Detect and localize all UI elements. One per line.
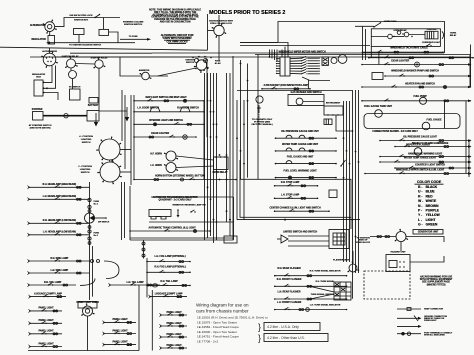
starter relay U5: [93, 57, 105, 68]
trunk satellite 3: [243, 100, 245, 220]
mid vertical bus c: [129, 186, 131, 240]
wire relay c to control: [409, 34, 425, 36]
panel row 4: [29, 342, 63, 348]
main feed rail right top: [152, 52, 444, 54]
box left drop: [370, 46, 372, 57]
svg-text:CIGAR LIGHTER: CIGAR LIGHTER: [151, 132, 169, 135]
right bus vertical inner 3: [349, 101, 351, 262]
side lamp inline connectors: [91, 260, 100, 263]
svg-text:OVERDRIVE LIGHT: OVERDRIVE LIGHT: [422, 42, 441, 44]
starter motor box: [33, 112, 44, 121]
svg-text:4 - POSITION: 4 - POSITION: [79, 135, 93, 138]
svg-text:1E.15979 - Open Two Seater: 1E.15979 - Open Two Seater: [197, 320, 237, 324]
svg-text:ALTERNATOR: ALTERNATOR: [42, 50, 57, 53]
svg-text:No.1: No.1: [94, 204, 99, 206]
regulator wire 2: [44, 66, 56, 89]
svg-text:IGNITION KEY: IGNITION KEY: [74, 20, 89, 22]
panel mid row 2: [103, 329, 137, 335]
svg-text:YELLOW: YELLOW: [426, 213, 441, 217]
wire alternator rail right: [56, 56, 205, 58]
svg-text:L.H. TAIL LAMP: L.H. TAIL LAMP: [127, 281, 144, 284]
wiper end dots: [308, 58, 320, 75]
inner bus dots: [343, 137, 351, 178]
horn push blade: [373, 22, 381, 28]
stop box drop: [350, 217, 352, 229]
svg-text:1E.77708 - 2+2: 1E.77708 - 2+2: [197, 340, 219, 344]
panel row 2: [29, 319, 63, 325]
cigar lighter left symbol: [183, 135, 187, 139]
row RH stop lamp: [274, 181, 319, 187]
svg-text:R.H. FRONT FLASHER: R.H. FRONT FLASHER: [277, 278, 302, 281]
label box 4.2 litre USA only: [264, 323, 320, 331]
lamp row luggage compt lamp right: [149, 292, 188, 298]
trunk wire 7: [229, 73, 231, 236]
svg-text:BOX: BOX: [37, 76, 42, 78]
svg-text:SWITCH: SWITCH: [81, 172, 90, 174]
svg-text:L.H. STOP LAMP: L.H. STOP LAMP: [281, 194, 300, 197]
wire battery to chassis ground: [99, 110, 127, 112]
row auto trans control light: [129, 226, 211, 232]
fuse bus vertical: [89, 182, 91, 300]
svg-text:SWITCH: SWITCH: [82, 142, 91, 144]
svg-text:FLASHER UNIT: FLASHER UNIT: [333, 259, 350, 262]
dashed option box: [364, 271, 410, 299]
row wiper illum: [364, 170, 471, 175]
alt switch blade: [94, 14, 100, 18]
svg-text:L.H. TURN SIGNAL INDICATOR: L.H. TURN SIGNAL INDICATOR: [310, 303, 341, 306]
wire alternator top: [49, 48, 51, 53]
left fuse bus second: [92, 246, 94, 297]
alternator inner dots: [46, 56, 53, 62]
battery cutoff box: [89, 98, 98, 104]
feed pair lower: [130, 239, 234, 241]
svg-text:BRAKE FLUID AND HANDBRAKE: BRAKE FLUID AND HANDBRAKE: [412, 142, 449, 145]
row horn button: [133, 176, 237, 181]
svg-text:R.H. SIDE LAMP: R.H. SIDE LAMP: [51, 257, 69, 260]
lamp row RH headlamp low beam: [28, 219, 90, 225]
svg-text:OIL PRESSURE GAUGE AND UNIT: OIL PRESSURE GAUGE AND UNIT: [281, 130, 319, 133]
svg-text:2 - POSITION: 2 - POSITION: [78, 166, 92, 168]
svg-text:PURPLE: PURPLE: [426, 209, 440, 213]
svg-text:LIGHT: LIGHT: [426, 218, 436, 222]
wiper fan wires: [290, 58, 301, 74]
ignition aux contact a: [195, 59, 199, 63]
row cigar lighter left: [133, 132, 197, 138]
row RH fog lamp: [146, 266, 191, 274]
arrowhead to fuse: [147, 38, 151, 41]
panel bus 2: [151, 290, 153, 351]
row RH rear flasher: [274, 267, 347, 277]
left-center rows right bus: [203, 101, 205, 180]
main feed rail left: [30, 56, 208, 58]
rail tick: [284, 219, 286, 221]
svg-text:AUTOMATIC TRANSMISSION SELECTO: AUTOMATIC TRANSMISSION SELECTOR: [153, 196, 198, 199]
svg-text:L.H. FRONT FLASHER: L.H. FRONT FLASHER: [277, 301, 302, 304]
selector wire 1: [288, 235, 329, 237]
left bus extra 1: [121, 90, 123, 141]
svg-text:FACTORY MANUAL): FACTORY MANUAL): [252, 123, 273, 126]
lamp row RH tail lamp: [28, 281, 77, 287]
left vertical a: [362, 26, 364, 60]
wire generator right: [406, 237, 444, 243]
svg-text:PANEL LIGHT: PANEL LIGHT: [39, 342, 55, 345]
svg-text:R.H. HEADLAMP (HIGH BEAM): R.H. HEADLAMP (HIGH BEAM): [43, 183, 77, 186]
hazard warning note: [420, 276, 453, 287]
stop box left riser: [239, 160, 241, 179]
regulator terminal dots: [43, 82, 45, 94]
svg-text:INSTRUMENT: INSTRUMENT: [326, 103, 341, 105]
legend ground via bolt: [397, 325, 422, 328]
wiper bank outlet wire: [302, 77, 330, 81]
2-position lighting switch U8: [97, 160, 122, 185]
starter switch box: [70, 89, 81, 100]
stop lamp outer box: [240, 179, 351, 217]
horn relay outer box: [371, 29, 440, 47]
door key shaft: [257, 105, 261, 124]
svg-text:REVERSE LAMP SW: REVERSE LAMP SW: [185, 204, 207, 207]
washer wires: [303, 101, 324, 103]
inhibitor switch symbol: [177, 209, 180, 217]
svg-text:QUADRANT - 2+2 CARS ONLY: QUADRANT - 2+2 CARS ONLY: [159, 199, 193, 202]
flasher unit circle: [348, 261, 360, 272]
trunk wire 1: [204, 73, 206, 240]
svg-text:COLOR CODE: COLOR CODE: [417, 180, 442, 184]
legend snap connector: [397, 308, 444, 311]
svg-text:HORN PUSH: HORN PUSH: [384, 21, 397, 23]
wire to horn push blade: [355, 25, 374, 27]
svg-text:WITH OPTIONAL EQUIPMENT: WITH OPTIONAL EQUIPMENT: [420, 278, 453, 281]
svg-text:WATER TEMP. GAUGE AND UNIT: WATER TEMP. GAUGE AND UNIT: [282, 143, 319, 146]
row LH front flasher: [274, 301, 347, 311]
wire to fuse arrow: [120, 38, 147, 40]
svg-text:PANEL LIGHT: PANEL LIGHT: [167, 333, 183, 336]
svg-text:SEE SUPPLEMENT PAGE: SEE SUPPLEMENT PAGE: [422, 281, 450, 284]
regulator wire dot: [46, 87, 48, 89]
selector grid: [333, 233, 345, 245]
left vertical b: [365, 29, 367, 60]
trunk junction dots: [207, 100, 231, 223]
chassis number text block: [196, 303, 268, 344]
cigar lighter right symbol: [415, 62, 420, 67]
wiper motor armature: [331, 58, 337, 64]
svg-text:GAS WASHER AND SWITCH: GAS WASHER AND SWITCH: [291, 91, 322, 94]
svg-text:L.H. HEADLAMP (HIGH BEAM): L.H. HEADLAMP (HIGH BEAM): [43, 195, 76, 198]
label box 4.2 litre other than USA: [264, 334, 328, 342]
alt relay box: [99, 29, 109, 35]
far right vertical: [444, 101, 446, 129]
wiper feed bundle 2: [271, 50, 273, 59]
svg-text:N -: N -: [418, 204, 422, 208]
wire relay to lock rail: [103, 18, 105, 30]
svg-text:STARTER: STARTER: [32, 108, 43, 111]
wire ignition switch up: [218, 15, 220, 25]
row flasher tail: [146, 280, 191, 286]
svg-text:CONNECTIONS SHOWN - 3.8 CARS O: CONNECTIONS SHOWN - 3.8 CARS ONLY: [372, 130, 418, 133]
lamp row RH headlamp high beam: [28, 183, 90, 189]
mid box top rail: [151, 196, 234, 198]
right bus vertical inner 2: [346, 101, 348, 262]
alt rail left arrow: [46, 41, 50, 44]
wire to generator light: [370, 236, 396, 238]
svg-text:1E.34751 - Fixed Head Coupe: 1E.34751 - Fixed Head Coupe: [197, 335, 239, 339]
svg-text:LIGHTING: LIGHTING: [81, 139, 92, 141]
svg-text:SNAP CONNECTOR: SNAP CONNECTOR: [424, 308, 443, 311]
relay contact a: [388, 34, 393, 39]
quadrant housing box: [149, 210, 171, 217]
svg-text:}: }: [258, 322, 261, 332]
windshield washer pump box: [372, 73, 383, 80]
fuel pump motor: [420, 97, 427, 104]
wire ignition relay drop: [70, 68, 72, 71]
bus connector dots: [88, 210, 91, 245]
svg-text:INHIBITOR: INHIBITOR: [173, 205, 185, 207]
trunk satellite 1: [236, 100, 238, 220]
svg-text:R.H. HEADLAMP (LOW BEAM): R.H. HEADLAMP (LOW BEAM): [43, 219, 76, 222]
fuel gauge: [422, 122, 430, 130]
ivr resistor: [324, 119, 332, 125]
wire ammeter feed: [120, 57, 142, 76]
dip switch with wedge: [85, 213, 110, 224]
row heater fan: [361, 83, 471, 89]
battery cable thick: [43, 115, 87, 117]
svg-text:HORN: HORN: [450, 33, 456, 35]
svg-text:GENERATOR UNIT: GENERATOR UNIT: [418, 231, 439, 234]
svg-text:WINDSHIELD TACH DRIVE CABLE: WINDSHIELD TACH DRIVE CABLE: [390, 46, 428, 49]
chassis ground arrow: [125, 107, 129, 122]
svg-text:REGULATOR: REGULATOR: [32, 38, 47, 41]
svg-text:P -: P -: [418, 209, 422, 213]
loom arc right of side lamps: [104, 261, 119, 279]
svg-text:A1-A2: A1-A2: [215, 62, 222, 65]
panel mid row 3: [103, 340, 137, 346]
wiper feed 3: [240, 43, 288, 58]
svg-text:4.2 litre - U.S.A. Only: 4.2 litre - U.S.A. Only: [267, 325, 299, 329]
svg-text:BLUE: BLUE: [426, 190, 436, 194]
svg-text:WINDSHIELD WASHER PUMP AND SWI: WINDSHIELD WASHER PUMP AND SWITCH: [391, 70, 439, 73]
relay contact b: [397, 31, 401, 35]
svg-text:BROWN: BROWN: [426, 204, 439, 208]
ignition cluster top dots: [192, 56, 212, 59]
svg-text:FIXING BOLT: FIXING BOLT: [424, 320, 437, 322]
svg-text:R.H. TURN SIGNAL: R.H. TURN SIGNAL: [316, 280, 336, 283]
wire alternator to lock rail: [55, 18, 120, 27]
svg-text:PANEL LIGHT: PANEL LIGHT: [167, 322, 183, 325]
lamp row luggage compt lamp: [29, 292, 67, 298]
right edge vertical bus: [470, 45, 472, 88]
row door switches: [133, 107, 205, 113]
reverse lamp switch symbol: [190, 210, 195, 213]
wiper feed bundle 3: [274, 50, 276, 61]
row oil pressure gauge: [275, 130, 337, 139]
stop lamp switch box: [329, 190, 337, 198]
battery ground arrow: [94, 113, 98, 127]
wire starter relay to battery: [98, 68, 100, 110]
generator drop: [400, 242, 402, 252]
lamp row LH side lamp: [28, 269, 90, 275]
color code legend: [415, 180, 444, 227]
brake fluid box: [389, 261, 397, 268]
svg-text:LUGGAGE COMPT LAMP: LUGGAGE COMPT LAMP: [155, 292, 183, 295]
selector wire 2: [288, 240, 329, 242]
svg-text:1E.34582 - Fixed Head Coupe: 1E.34582 - Fixed Head Coupe: [197, 325, 239, 329]
turn signal relay box: [334, 282, 351, 300]
diag wire rows to relay: [310, 286, 334, 299]
svg-text:LUGGAGE COMPT LAMP: LUGGAGE COMPT LAMP: [34, 292, 62, 295]
fog rows bus vertical: [146, 258, 148, 297]
overdrive switch: [426, 44, 431, 47]
row fuel level warning: [275, 170, 337, 180]
generator warning light: [395, 229, 408, 242]
svg-text:WATER TEMP. GAUGE LIGHT: WATER TEMP. GAUGE LIGHT: [404, 157, 437, 160]
wire quadrant row: [149, 221, 234, 223]
svg-text:DIP SWITCH: DIP SWITCH: [98, 222, 110, 224]
svg-text:ALTERNATOR: ALTERNATOR: [30, 24, 46, 27]
svg-text:FUSE BLOCK: FUSE BLOCK: [356, 242, 371, 244]
low freq horn U10: [164, 163, 178, 173]
svg-text:WINDSHIELD WIPER MOTOR AND SWI: WINDSHIELD WIPER MOTOR AND SWITCH: [279, 51, 326, 54]
selector wire 3: [288, 245, 329, 247]
svg-text:STRG COLUMN LOCK: STRG COLUMN LOCK: [210, 23, 232, 25]
svg-text:(WHERE FITTED): (WHERE FITTED): [427, 284, 446, 286]
quadrant notches: [151, 217, 166, 220]
svg-text:HAZARD UNIT: HAZARD UNIT: [391, 251, 407, 254]
svg-text:2-PIN SOCKET (FOR INSPECTION L: 2-PIN SOCKET (FOR INSPECTION LAMP): [264, 84, 309, 87]
row LH stop lamp: [274, 194, 319, 200]
row ignition tach drive: [362, 46, 444, 53]
panel row 1: [29, 307, 63, 313]
instrument voltage regulator box: [324, 106, 343, 115]
left bus vertical: [130, 95, 132, 185]
wire ignition switch drop: [218, 36, 220, 60]
lamp row LH tail lamp: [109, 281, 161, 287]
wiper switch column: [301, 56, 308, 74]
door key switch: [256, 96, 263, 103]
fuel tank box: [364, 114, 460, 129]
row interior courtesy: [394, 165, 471, 169]
svg-text:RELAY: RELAY: [450, 34, 457, 37]
alternator U3 main: [41, 51, 58, 68]
svg-text:TO STARTER SOLENOID SWITCH: TO STARTER SOLENOID SWITCH: [69, 44, 102, 47]
svg-text:G -: G -: [418, 223, 423, 227]
high freq horn U9: [164, 151, 178, 161]
wiper feed bundle 1: [269, 50, 271, 58]
wire relay link: [76, 63, 95, 66]
row horns 38: [368, 56, 474, 59]
wire 2-pos to bus: [120, 171, 131, 173]
row oil gauge right: [379, 136, 471, 142]
trunk wire 6: [226, 73, 228, 222]
right edge vertical: [469, 55, 471, 88]
svg-text:COURTESY LIGHT SWITCH: COURTESY LIGHT SWITCH: [415, 165, 445, 167]
alt circuit bottom rail: [50, 42, 135, 44]
ivr drop wire: [336, 115, 352, 131]
mid vertical bus a: [121, 182, 123, 240]
2-pin socket drop: [307, 80, 309, 89]
relay inner dots: [393, 33, 412, 37]
bundle dots: [269, 52, 276, 58]
wire relay a to c: [392, 36, 404, 38]
row brake fluid warning: [394, 142, 471, 148]
fuse F1: [88, 198, 100, 208]
svg-text:cars from chassis number: cars from chassis number: [196, 309, 249, 314]
junction dots right buses: [236, 63, 359, 238]
wire alternator to regulator alt: [49, 32, 51, 36]
frame right drop: [444, 40, 446, 53]
row RH front flasher: [274, 278, 347, 288]
trunk wire 8: [232, 56, 234, 240]
fuel gauge bumps: [286, 161, 292, 164]
wire ammeter to ignition switch: [149, 75, 168, 77]
rheostat drop: [87, 316, 89, 351]
row cigar lighter right: [361, 60, 471, 66]
lamp row LH headlamp high beam: [28, 195, 90, 201]
flasher wire up: [352, 251, 354, 264]
battery box: [87, 111, 99, 122]
wire relay right drop: [109, 32, 119, 43]
svg-text:CIGAR LIGHTER: CIGAR LIGHTER: [391, 60, 409, 63]
ignition relay U4: [65, 56, 78, 68]
svg-text:L.H. FOG LAMP (OPTIONAL): L.H. FOG LAMP (OPTIONAL): [155, 255, 186, 258]
svg-text:MODELS PRIOR TO SERIES 2: MODELS PRIOR TO SERIES 2: [209, 10, 285, 16]
svg-text:PANEL LIGHT: PANEL LIGHT: [39, 307, 55, 310]
cable terminal circle: [64, 114, 68, 118]
junction dots trunk extra: [207, 100, 231, 221]
wire ammeter to ignition sw: [158, 68, 197, 76]
control box inner: [425, 31, 438, 39]
svg-text:LIMITED SWITCH AND SWITCH: LIMITED SWITCH AND SWITCH: [283, 231, 317, 234]
svg-text:PANEL LIGHT: PANEL LIGHT: [39, 319, 55, 322]
rheostat label box: [78, 302, 97, 309]
ignition switch terminals: [195, 68, 208, 71]
svg-text:HORN RELAY: HORN RELAY: [394, 29, 408, 32]
alternate circuit right border: [207, 14, 209, 50]
row fuel gauge unit: [275, 156, 337, 165]
right bus vertical inner 1: [343, 101, 345, 262]
mid vertical drop: [143, 240, 145, 259]
horn relay box: [214, 157, 229, 170]
big connector dot row4: [306, 308, 310, 312]
wire solenoid drop: [72, 79, 74, 90]
feed pair upper: [130, 237, 234, 239]
right bus vertical 3: [358, 90, 360, 273]
right bus vertical 1: [352, 90, 354, 273]
relay contact c: [404, 32, 409, 37]
svg-text:AMMETER: AMMETER: [139, 69, 150, 72]
loom arc 2: [80, 279, 95, 286]
long rail y53 left part: [70, 52, 152, 54]
row 2-pin socket: [261, 84, 311, 90]
svg-text:PANEL LIGHT: PANEL LIGHT: [113, 329, 129, 332]
svg-text:U -: U -: [418, 190, 422, 194]
svg-text:L.H. HEADLAMP (LOW BEAM): L.H. HEADLAMP (LOW BEAM): [43, 231, 76, 234]
generator unit underline box: [413, 230, 443, 235]
svg-text:1E.15001 (R.H. Drive) and 1E.7: 1E.15001 (R.H. Drive) and 1E.75001 (L.H.…: [197, 316, 268, 320]
washer pump motor: [296, 98, 303, 105]
svg-text:L.H. DOOR SWITCH: L.H. DOOR SWITCH: [137, 108, 159, 110]
long rail y219.6: [237, 219, 360, 221]
svg-text:IGNITION SWITCH: IGNITION SWITCH: [124, 24, 143, 26]
regulator box (alt circuit): [48, 36, 55, 45]
turn relay inner grid: [334, 282, 351, 300]
wire ignition switch left: [208, 30, 214, 32]
svg-text:FUSE: FUSE: [94, 201, 100, 203]
tail row inline oval: [152, 284, 157, 287]
right section top rail 2: [255, 54, 470, 56]
svg-text:MAP LIGHT SWITCH AND MAP LIGHT: MAP LIGHT SWITCH AND MAP LIGHT: [146, 96, 188, 99]
svg-text:CENTER CHANGE ILLUM. LIGHT AND: CENTER CHANGE ILLUM. LIGHT AND SWITCH: [270, 206, 321, 209]
row hand light switch and lamp: [133, 96, 205, 103]
row water temp gauge: [275, 143, 337, 152]
